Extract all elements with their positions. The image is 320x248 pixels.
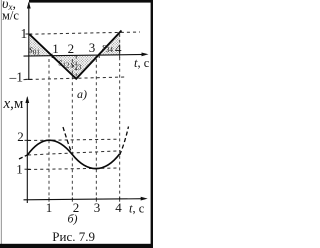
dashed level v=+1 xyxy=(29,32,140,34)
svg-text:–1: –1 xyxy=(9,70,24,85)
svg-text:1: 1 xyxy=(52,41,59,56)
x axis (bottom graph, vertical) xyxy=(26,98,28,204)
dashed level x=1.5 xyxy=(28,151,121,155)
dash-dot extension beyond t=4 xyxy=(120,127,129,155)
ticks on t axis xyxy=(51,54,53,58)
hatched area s34 (triangle t=3..4) xyxy=(99,34,120,56)
t axis (top) xyxy=(24,54,147,56)
svg-text:б): б) xyxy=(68,212,78,226)
v axis (top) xyxy=(28,3,30,80)
hatched area s12 (triangle t=1..2) xyxy=(52,56,76,79)
frame: left grey line xyxy=(1,0,2,244)
dash-dot extension above peak (backward branch of 2nd parabola) xyxy=(63,127,72,155)
tick x=2 xyxy=(25,139,31,141)
svg-text:4: 4 xyxy=(115,41,122,56)
svg-text:3: 3 xyxy=(89,40,96,55)
tick x=1 xyxy=(25,168,31,170)
tick v=1 xyxy=(26,33,33,35)
ticks on bottom t axis xyxy=(48,197,50,201)
dashed level x=1 xyxy=(28,168,119,170)
svg-text:3: 3 xyxy=(94,200,101,215)
frame: bottom black border xyxy=(0,244,153,248)
svg-text:м/с: м/с xyxy=(2,9,19,23)
frame: top black border xyxy=(29,0,153,3)
dashed level v=-1 xyxy=(24,77,126,80)
frame: right black border xyxy=(151,0,153,248)
svg-text:2: 2 xyxy=(68,41,75,56)
svg-text:x,м: x,м xyxy=(3,96,24,112)
svg-text:1: 1 xyxy=(46,200,53,215)
svg-text:t, с: t, с xyxy=(129,201,145,215)
x(t) curve xyxy=(27,140,119,168)
svg-text:1: 1 xyxy=(21,26,28,41)
dashed vertical at vertex t=2 xyxy=(75,56,77,79)
hatched area s23 (triangle t=2..3) xyxy=(76,56,99,79)
svg-text:а): а) xyxy=(77,87,87,101)
v(t) line: V shape xyxy=(29,31,121,79)
t axis (bottom) xyxy=(24,199,146,200)
tick v=-1 xyxy=(26,78,33,80)
svg-text:Рис. 7.9: Рис. 7.9 xyxy=(52,229,95,244)
svg-text:1: 1 xyxy=(16,162,23,177)
dash-dot start extension (left of t=0) xyxy=(19,155,27,159)
svg-text:4: 4 xyxy=(115,200,122,215)
dashed level x=2 xyxy=(28,139,119,140)
svg-text:2: 2 xyxy=(17,129,24,144)
hatched area s01 (triangle t=0..1) xyxy=(29,34,52,56)
svg-text:t, с: t, с xyxy=(134,56,150,70)
